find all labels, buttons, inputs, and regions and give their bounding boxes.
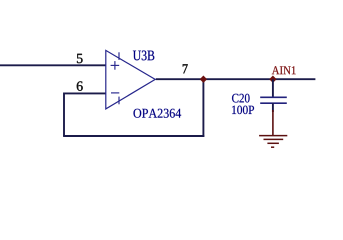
ground bar 3 <box>267 142 279 144</box>
wire: feedback left vertical <box>63 93 65 137</box>
op-amp bottom power stub <box>118 97 120 105</box>
part value OPA2364 <box>133 109 141 118</box>
wire: feedback bottom horizontal <box>63 135 204 137</box>
wire: pin 5 input from left edge <box>0 64 106 66</box>
pin number 5 <box>77 54 83 63</box>
pin number 6 <box>77 81 83 90</box>
wire: feedback right vertical up to output junction <box>202 79 204 137</box>
op-amp plus marker <box>111 61 120 70</box>
ground bar 4 <box>271 146 274 148</box>
junction at feedback/output node <box>200 76 207 83</box>
op-amp U3B triangle <box>106 50 155 109</box>
pin number 7 <box>183 64 188 73</box>
capacitor C20 plates <box>260 97 287 103</box>
wire: pin 6 input horizontal <box>64 92 106 94</box>
designator U3B <box>133 51 141 61</box>
ground stem <box>272 110 274 136</box>
op-amp minus marker <box>111 92 119 94</box>
net label AIN1 <box>272 66 280 74</box>
junction at node AIN1 <box>269 76 276 83</box>
op-amp top power stub <box>118 52 120 60</box>
ground bar 2 <box>264 138 284 140</box>
value 100P <box>232 106 236 114</box>
ground bar 1 <box>259 135 287 137</box>
wire: capacitor top stem <box>272 79 274 97</box>
wire: capacitor bottom stem <box>272 103 274 112</box>
wire: output pin 7 to AIN1 <box>156 78 316 80</box>
designator C20 <box>232 94 238 103</box>
